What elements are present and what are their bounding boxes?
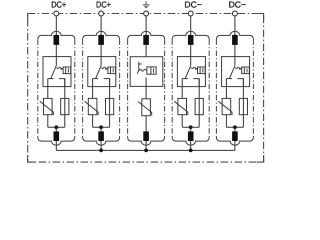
blade foot contact <box>182 78 188 80</box>
top disconnect contact (black) module 5 <box>232 35 238 45</box>
module 3 boundary top edge with plug-in arch <box>128 31 165 39</box>
left branch wire (to varistor) <box>181 79 183 99</box>
left branch wire (to varistor) <box>225 79 227 99</box>
junction node module 5 <box>233 125 237 129</box>
terminal circle X2 <box>99 11 104 16</box>
terminal circle X4 <box>188 11 193 16</box>
switch blade <box>51 66 57 79</box>
switch blade <box>229 66 235 79</box>
entry wire inside box <box>100 57 102 66</box>
top disconnect contact (black) module 3 <box>143 35 149 45</box>
module 2 boundary bottom edge with plug-in arch <box>83 137 120 145</box>
fixed contact bar <box>104 79 110 87</box>
thermal disconnector U2 box <box>88 57 116 87</box>
outer enclosure dash-dot frame <box>28 14 264 163</box>
blade foot contact <box>226 78 232 80</box>
module 1 boundary bottom edge with plug-in arch <box>38 137 75 145</box>
wire node to bottom contact <box>55 127 57 132</box>
module 5 boundary top edge with plug-in arch <box>216 31 253 39</box>
module 2 boundary right edge <box>119 39 121 137</box>
module 1 boundary right edge <box>74 39 76 137</box>
actuation arrow to indicator <box>191 67 195 68</box>
wire to disconnector box <box>55 45 57 57</box>
blade foot contact <box>93 78 99 80</box>
left branch wire (to varistor) <box>92 79 94 99</box>
left branch wire (to varistor) <box>47 79 49 99</box>
wire terminal to plug-in contact <box>190 16 192 36</box>
wire terminal to plug-in contact <box>100 16 102 36</box>
varistor lower wire <box>225 115 227 128</box>
status indicator window module 5 <box>242 67 250 74</box>
wire to PE bus <box>145 141 147 150</box>
wire to disconnector box <box>234 45 236 57</box>
fuse branch wire <box>109 79 111 128</box>
entry wire inside box <box>234 57 236 66</box>
PE earth symbol <box>143 1 150 7</box>
top disconnect contact (black) module 2 <box>98 35 104 45</box>
varistor lower wire <box>181 115 183 128</box>
varistor MOV4 <box>174 98 188 115</box>
bottom disconnect contact (black) module 4 <box>188 131 194 141</box>
spark gap unit F3 box <box>130 57 163 87</box>
fuse branch wire <box>242 79 244 128</box>
actuation arrow to indicator <box>101 67 105 68</box>
fuse F2 <box>106 98 114 114</box>
bus junction node 4 <box>189 149 193 153</box>
spark gap electrode <box>137 62 139 74</box>
bottom disconnect contact (black) module 5 <box>232 131 238 141</box>
blade foot contact <box>48 78 54 80</box>
module 2 boundary left edge <box>82 39 84 137</box>
varistor MOV5 <box>218 98 232 115</box>
terminal circle X1 <box>54 11 59 16</box>
module 3 boundary bottom edge with plug-in arch <box>128 137 165 145</box>
varistor lower wire <box>92 115 94 128</box>
wire to PE bus <box>100 141 102 150</box>
entry wire inside box <box>55 57 57 66</box>
status indicator window module 4 <box>198 67 206 74</box>
switch blade <box>96 66 102 79</box>
module 3 boundary right edge <box>164 39 166 137</box>
varistor MOV2 <box>85 98 99 115</box>
svg-text:DC+: DC+ <box>96 0 111 9</box>
wire to PE bus <box>190 141 192 150</box>
module 5 boundary bottom edge with plug-in arch <box>216 137 253 145</box>
wire to PE bus <box>234 141 236 150</box>
module 4 boundary top edge with plug-in arch <box>172 31 209 39</box>
thermal disconnector U5 box <box>222 57 250 87</box>
trigger squiggle <box>139 69 146 71</box>
junction node module 1 <box>54 125 58 129</box>
fixed contact bar <box>238 79 244 87</box>
wire varistor to bottom contact <box>145 116 147 133</box>
fuse branch wire <box>64 79 66 128</box>
bottom disconnect contact (black) module 3 <box>143 131 149 141</box>
entry wire inside box <box>190 57 192 66</box>
exit wire from spark gap box <box>145 78 147 100</box>
module 4 boundary right edge <box>208 39 210 137</box>
status indicator window module 1 <box>63 67 71 74</box>
status indicator window module 2 <box>108 67 116 74</box>
actuation arrow to indicator <box>235 67 239 68</box>
terminal circle X3 <box>144 11 149 16</box>
module 3 boundary left edge <box>127 39 129 137</box>
module 5 boundary right edge <box>252 39 254 137</box>
terminal circle X5 <box>232 11 237 16</box>
wire to disconnector box <box>145 45 147 57</box>
wire node to bottom contact <box>190 127 192 132</box>
bottom disconnect contact (black) module 2 <box>98 131 104 141</box>
thermal disconnector U4 box <box>177 57 205 87</box>
frame corner solid marks <box>28 14 35 21</box>
branch join wire <box>182 126 199 128</box>
fuse F4 <box>195 98 203 114</box>
module 2 boundary top edge with plug-in arch <box>83 31 120 39</box>
fixed contact bar <box>193 79 199 87</box>
varistor MOV1 <box>40 98 54 115</box>
thermal disconnector U1 box <box>43 57 71 87</box>
spark gap indicator window <box>147 67 156 74</box>
wire terminal to plug-in contact <box>234 16 236 36</box>
module 5 boundary left edge <box>215 39 217 137</box>
top disconnect contact (black) module 4 <box>188 35 194 45</box>
module 4 boundary left edge <box>171 39 173 137</box>
varistor MOV3 <box>138 99 152 116</box>
branch join wire <box>48 126 65 128</box>
PE collecting bus wire <box>56 149 235 151</box>
module 1 boundary top edge with plug-in arch <box>38 31 75 39</box>
wire to disconnector box <box>100 45 102 57</box>
svg-text:DC−: DC− <box>184 0 201 9</box>
bottom disconnect contact (black) module 1 <box>54 131 60 141</box>
wire terminal to plug-in contact <box>145 16 147 36</box>
svg-text:DC+: DC+ <box>51 0 66 9</box>
module 1 boundary left edge <box>37 39 39 137</box>
module 4 boundary bottom edge with plug-in arch <box>172 137 209 145</box>
branch join wire <box>93 126 110 128</box>
wire node to bottom contact <box>100 127 102 132</box>
fuse F1 <box>61 98 69 114</box>
wire to disconnector box <box>190 45 192 57</box>
svg-text:DC−: DC− <box>229 0 246 9</box>
varistor lower wire <box>47 115 49 128</box>
fixed contact bar <box>59 79 65 87</box>
junction node module 2 <box>99 125 103 129</box>
junction node module 4 <box>189 125 193 129</box>
top disconnect contact (black) module 1 <box>54 35 60 45</box>
fuse F5 <box>239 98 247 114</box>
wire node to bottom contact <box>234 127 236 132</box>
switch blade <box>185 66 191 79</box>
wire to PE bus <box>55 141 57 150</box>
bus junction node 2 <box>99 149 103 153</box>
wire terminal to plug-in contact <box>55 16 57 36</box>
branch join wire <box>226 126 243 128</box>
bus junction node 3 <box>144 149 148 153</box>
actuation arrow to indicator <box>57 67 61 68</box>
fuse branch wire <box>198 79 200 128</box>
